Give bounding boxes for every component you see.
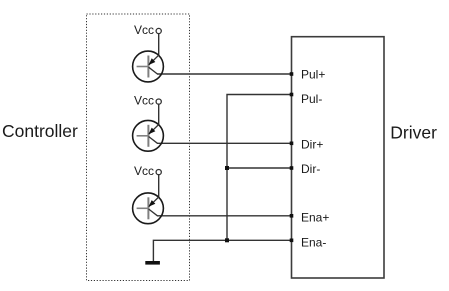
wire Vcc to Q3 emitter	[158, 175, 160, 197]
wire Dir+	[157, 142, 292, 144]
pin dot Pul-	[290, 93, 294, 97]
Q2 emitter diagonal	[149, 125, 159, 135]
Q3 emitter diagonal	[149, 197, 159, 207]
Q3 body circle	[133, 193, 164, 224]
Q2 body circle	[133, 120, 164, 151]
Q2 emitter arrow	[149, 128, 156, 135]
Q2 base bar	[147, 125, 149, 147]
transistor Q1	[133, 23, 164, 82]
wire Dir-	[227, 167, 292, 169]
svg-text:Vcc: Vcc	[134, 164, 154, 178]
junction Dir- bus	[225, 166, 229, 170]
svg-text:Dir-: Dir-	[301, 162, 320, 176]
Q1 emitter arrow	[149, 58, 156, 65]
pin dot Ena-	[290, 239, 294, 243]
Q1 body circle	[133, 51, 164, 82]
svg-text:Ena-: Ena-	[301, 236, 326, 250]
wire Ena- / ground wire	[153, 240, 291, 261]
svg-text:Ena+: Ena+	[301, 211, 329, 225]
svg-text:Driver: Driver	[390, 122, 437, 142]
controller box (dotted)	[87, 14, 190, 281]
Q1 emitter diagonal	[149, 55, 159, 65]
Vcc terminal Q1	[156, 28, 161, 33]
junction ground bus	[225, 238, 229, 242]
svg-text:Controller: Controller	[2, 121, 78, 141]
Q3 base lead	[137, 207, 149, 209]
wire Pul-	[227, 95, 292, 241]
transistor Q2	[133, 94, 164, 152]
pin dot Pul+	[290, 72, 294, 76]
transistor Q3	[133, 164, 164, 224]
svg-text:Pul-: Pul-	[301, 92, 322, 106]
Q1 base lead	[137, 66, 149, 68]
Q1 base bar	[147, 56, 149, 78]
Vcc terminal Q2	[156, 99, 161, 104]
Q3 base bar	[147, 197, 149, 219]
wire Vcc to Q2 emitter	[158, 104, 160, 124]
driver box U1	[292, 37, 385, 278]
pin dot Dir+	[290, 142, 294, 146]
pin dot Dir-	[290, 166, 294, 170]
Vcc terminal Q3	[156, 170, 161, 175]
wire Vcc to Q1 emitter	[158, 34, 160, 55]
wire Ena+	[157, 215, 292, 217]
ground	[145, 261, 160, 265]
Q1 collector diagonal	[149, 67, 158, 74]
pin dot Ena+	[290, 214, 294, 218]
Q2 base lead	[137, 135, 149, 137]
svg-text:Dir+: Dir+	[301, 138, 323, 152]
svg-text:Vcc: Vcc	[134, 23, 154, 37]
svg-text:Pul+: Pul+	[301, 68, 325, 82]
Q3 emitter arrow	[149, 200, 156, 207]
Q2 collector diagonal	[149, 137, 158, 144]
wire Pul+	[157, 73, 292, 75]
Q3 collector diagonal	[149, 209, 158, 216]
svg-text:Vcc: Vcc	[134, 94, 154, 108]
